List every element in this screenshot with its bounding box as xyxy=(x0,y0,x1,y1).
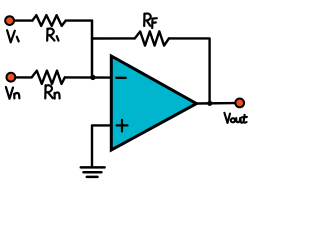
wire: Rn to junction to op-amp minus input xyxy=(65,76,112,79)
op-amp minus symbol xyxy=(116,77,125,79)
wire: Vn to Rn xyxy=(17,76,32,78)
label V1 xyxy=(7,30,19,42)
resistor R1 xyxy=(32,15,65,26)
label Vout xyxy=(224,113,247,123)
wire: vertical inverting-node bus xyxy=(91,21,94,78)
ground xyxy=(81,167,105,177)
resistor Rn xyxy=(32,71,65,84)
resistor RF xyxy=(135,31,169,45)
node: summing junction xyxy=(90,75,95,80)
terminal Vn xyxy=(6,73,15,82)
op-amp U1 xyxy=(111,56,196,150)
op-amp plus symbol xyxy=(117,120,128,131)
label R1 xyxy=(47,29,58,41)
wire: R1 to inverting node corner xyxy=(66,19,92,21)
label RF xyxy=(144,14,157,28)
node: output junction xyxy=(207,101,212,106)
terminal V1 xyxy=(5,16,14,25)
wire: op-amp output to Vout terminal xyxy=(197,102,235,105)
wire: plus input xyxy=(92,125,111,166)
wire: feedback branch right + down to output xyxy=(169,38,210,103)
wire: V1 to R1 xyxy=(15,19,32,21)
wire: feedback branch left segment xyxy=(92,37,135,39)
label Rn xyxy=(45,85,59,98)
label Vn xyxy=(6,87,20,99)
terminal Vout xyxy=(235,99,244,108)
